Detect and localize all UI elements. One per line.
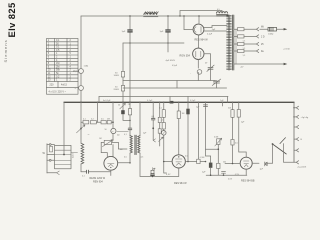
- svg-text:0,5: 0,5: [185, 156, 188, 158]
- svg-text:+4 150: +4 150: [283, 49, 291, 51]
- terminal arrow B1: [296, 115, 298, 118]
- electrolytic C10: [186, 109, 189, 115]
- wire x81 below bus: [80, 102, 82, 143]
- capacitor C9: [151, 118, 155, 120]
- resistor R17: [197, 159, 200, 163]
- antenna coil rungs: [55, 150, 72, 164]
- terminal arrow A4: [256, 49, 258, 52]
- V4 electrodes: [176, 159, 183, 165]
- IF transformer T2 left: [130, 136, 132, 154]
- junction x81: [80, 128, 82, 130]
- svg-text:1μF: 1μF: [160, 31, 164, 33]
- resistor R14: [162, 110, 165, 118]
- lamp La1: [79, 69, 84, 74]
- bus main: [64, 101, 294, 103]
- terminal arrow B0: [296, 106, 298, 109]
- parts table: [47, 39, 79, 95]
- meter M1: [111, 128, 116, 133]
- wire bottom row left: [81, 171, 86, 173]
- wire branch y149: [206, 148, 219, 150]
- wire branch x130: [129, 43, 131, 102]
- coil L3: [81, 143, 84, 164]
- C9 wire: [152, 120, 154, 140]
- svg-text:0,5M: 0,5M: [200, 157, 205, 159]
- antenna coil frame: [55, 145, 72, 168]
- svg-text:2M: 2M: [128, 104, 131, 106]
- switch dot: [272, 143, 274, 145]
- svg-text:1M: 1M: [182, 113, 185, 115]
- capacitor C11: [203, 105, 207, 107]
- tick x227: [227, 97, 229, 103]
- resistor R15: [162, 123, 165, 130]
- wire P2 down: [217, 145, 219, 164]
- resistor R6: [238, 42, 245, 45]
- capacitor C1: [128, 30, 132, 32]
- V3 dot: [110, 167, 111, 168]
- wire x184 drop: [183, 16, 185, 30]
- T2 core: [135, 135, 136, 154]
- wire bottom right: [206, 174, 247, 176]
- wire R8 left: [81, 121, 98, 123]
- svg-text:4,5V: 4,5V: [166, 174, 171, 176]
- switch lever: [273, 144, 287, 154]
- wire La3 down: [197, 72, 199, 80]
- wire V5 left: [225, 163, 240, 165]
- svg-text:0,1: 0,1: [152, 116, 155, 118]
- tap line 1: [234, 28, 238, 30]
- terminal arrow A5: [296, 161, 298, 164]
- V1 electrodes: [194, 27, 201, 36]
- wire row y80.5: [123, 80, 216, 82]
- terminal arrow B3: [296, 138, 298, 141]
- C8 wire: [152, 173, 154, 176]
- wire x113 to tube: [112, 140, 114, 157]
- wire x206 lower: [205, 108, 207, 149]
- wire T1 top: [228, 15, 230, 16]
- R12 wires: [129, 102, 131, 127]
- wire left drop: [80, 16, 82, 102]
- resistor R7: [238, 49, 245, 52]
- svg-text:4,5V: 4,5V: [228, 178, 233, 180]
- right terminal stub 0: [294, 107, 296, 109]
- wire V1 top: [198, 16, 200, 24]
- svg-text:0,1μF: 0,1μF: [207, 33, 213, 35]
- wire V2 right: [204, 54, 211, 67]
- terminal arrow B2: [296, 125, 298, 128]
- wire V4 right: [185, 161, 205, 163]
- V5 electrodes: [244, 161, 249, 167]
- capacitor C1 branch: [129, 16, 131, 29]
- svg-text:29,15: 29,15: [73, 71, 79, 73]
- resistor R24: [158, 129, 161, 133]
- antenna tap right: [71, 152, 78, 154]
- svg-text:~: ~: [75, 86, 77, 90]
- wire x178 drop: [178, 102, 180, 155]
- wire arrow out: [277, 28, 285, 30]
- wire x163 drop: [163, 102, 165, 161]
- resistor R16: [177, 111, 180, 119]
- P1 arrow: [102, 140, 113, 147]
- wire M1 down: [112, 134, 114, 140]
- R24 wire: [159, 133, 161, 146]
- extra labels cluster: [99, 63, 245, 164]
- capacitor C2 branch: [167, 16, 169, 29]
- resistor R12: [128, 109, 131, 115]
- terminal stub c: [47, 159, 55, 161]
- junction V3 wire: [129, 162, 131, 164]
- svg-text:Wt: Wt: [261, 25, 264, 28]
- svg-text:REN 904: REN 904: [93, 181, 103, 184]
- resistor R19: [217, 163, 220, 168]
- svg-text:0,5M: 0,5M: [214, 137, 219, 139]
- svg-text:Siemens: Siemens: [3, 39, 8, 62]
- potentiometer P2: [217, 139, 220, 145]
- wire x198 drop: [197, 102, 199, 159]
- terminal arrow A1: [256, 28, 258, 31]
- resistor R2: [121, 86, 124, 92]
- svg-text:0,5μF: 0,5μF: [172, 65, 178, 67]
- wire V1 right steps: [204, 26, 227, 32]
- C12 body: [209, 163, 213, 168]
- diode D1: [265, 162, 267, 166]
- wire tap4: [244, 50, 256, 52]
- wire x113 drop: [112, 102, 114, 128]
- junction x193: [187, 161, 189, 163]
- R23 wire: [159, 123, 161, 129]
- R13 wires: [153, 168, 156, 171]
- wire to M1 column: [117, 130, 128, 132]
- capacitor C3 trimmer: [207, 65, 214, 72]
- wire x222 stub: [222, 102, 224, 106]
- wire C1 to node: [129, 33, 131, 43]
- svg-text:~: ~: [88, 133, 90, 137]
- resistor R21: [237, 110, 240, 118]
- resistor R8: [83, 121, 89, 124]
- choke L2: [217, 12, 229, 16]
- wire R22 down: [232, 145, 234, 164]
- wire x159 drop: [159, 102, 161, 117]
- wire T2 right down: [139, 153, 141, 176]
- capacitor C8: [151, 174, 155, 175]
- tube V1 RES964: [193, 24, 204, 35]
- resistor R4: [268, 27, 277, 31]
- antenna terminal rail: [46, 144, 48, 173]
- resistor R9: [91, 121, 97, 124]
- wire x232 drop: [232, 102, 234, 139]
- wire upper rail left drop: [98, 97, 100, 103]
- C7 wire down: [123, 114, 130, 120]
- svg-text:100Ω: 100Ω: [114, 75, 120, 77]
- junction: [129, 42, 131, 44]
- wire V2 bottom: [197, 60, 199, 69]
- wire stub: [167, 43, 169, 52]
- wire C4 links: [216, 81, 218, 89]
- T2 right: [138, 136, 140, 154]
- svg-text:0,1μF: 0,1μF: [147, 100, 153, 102]
- wire C3 down: [210, 70, 212, 81]
- junction V4 left: [163, 161, 165, 163]
- terminal circle c: [49, 159, 51, 161]
- terminal stub a: [47, 144, 55, 146]
- wire tap2: [244, 35, 256, 37]
- capacitor C2: [166, 30, 170, 32]
- svg-text:RES 964 W: RES 964 W: [195, 39, 209, 42]
- junction V5 left: [232, 163, 234, 165]
- bus right drop: [293, 102, 295, 162]
- svg-text:+1g/+4g: +1g/+4g: [301, 117, 309, 119]
- wire x188 drop: [187, 97, 189, 162]
- wire node row y43: [123, 42, 184, 44]
- wire x97 drop: [97, 102, 99, 122]
- junction bottom2: [210, 174, 212, 176]
- labels under tap boxes: [240, 41, 245, 69]
- svg-text:0,5μF: 0,5μF: [190, 100, 196, 102]
- svg-text:RGN 354: RGN 354: [180, 55, 191, 58]
- arrow out A: [153, 139, 155, 142]
- potentiometer P1: [104, 140, 111, 144]
- wire tap3: [244, 43, 256, 45]
- tap line 4: [234, 50, 238, 52]
- terminal arrow B4: [296, 149, 298, 152]
- arrowhead bottom: [284, 63, 288, 65]
- wire switch riser: [272, 144, 274, 163]
- wire bottom terminal: [284, 161, 297, 163]
- svg-text:1,5: 1,5: [243, 55, 246, 57]
- terminal stub b: [47, 154, 55, 156]
- arrow diag x81: [77, 125, 86, 133]
- wire T1 bottom out: [234, 63, 284, 65]
- V2 electrodes: [196, 51, 201, 57]
- V4 dot: [178, 156, 179, 157]
- wire R10 links: [98, 121, 114, 123]
- svg-text:4μF 450V: 4μF 450V: [166, 60, 176, 62]
- resistor R13: [151, 170, 154, 173]
- wire P1 to tube: [101, 142, 107, 156]
- svg-text:50: 50: [105, 129, 107, 131]
- svg-text:0,1: 0,1: [82, 176, 85, 178]
- lamp La2: [79, 86, 84, 91]
- capacitor C14: [128, 128, 132, 130]
- terminal arrow A2: [256, 35, 258, 38]
- tube V5 output: [240, 157, 252, 169]
- arrowhead: [284, 28, 288, 30]
- tap line 3: [234, 43, 238, 45]
- resistor R5: [238, 35, 245, 38]
- svg-text:2 D: 2 D: [261, 37, 265, 39]
- wire D1 out: [265, 162, 273, 164]
- junction R11: [112, 121, 114, 123]
- wire V5 right: [252, 162, 259, 164]
- svg-text:0,5: 0,5: [217, 9, 220, 11]
- V3 electrodes: [108, 164, 114, 167]
- wire tap1: [244, 28, 256, 30]
- wire top rail: [81, 15, 229, 17]
- R19 wire: [217, 169, 219, 176]
- junction P2: [218, 148, 220, 150]
- wire C5 to tube: [89, 171, 111, 173]
- junction bottom: [152, 176, 154, 178]
- wire upper rail: [99, 96, 228, 98]
- tap line 2: [234, 35, 238, 37]
- tick x170: [169, 97, 171, 103]
- wire tap1 cont: [260, 28, 268, 30]
- wire bottom row mid: [140, 175, 179, 177]
- inductor L1: [144, 12, 159, 17]
- svg-text:50: 50: [118, 105, 120, 107]
- resistor R1: [121, 72, 124, 78]
- svg-text:4 x 0,5 / 220 V ~: 4 x 0,5 / 220 V ~: [49, 91, 67, 94]
- svg-text:RES 964 W: RES 964 W: [174, 182, 187, 185]
- tube V2 RGN354: [193, 48, 204, 59]
- svg-text:Elv 825: Elv 825: [6, 2, 17, 37]
- svg-text:1,5: 1,5: [243, 41, 246, 43]
- svg-text:100Ω: 100Ω: [268, 33, 274, 35]
- transformer T1 core: [232, 15, 233, 70]
- wire x283 lower: [283, 144, 285, 163]
- wire heater stub: [164, 162, 167, 174]
- wire left branch x123: [122, 43, 124, 102]
- wire C6: [122, 102, 124, 110]
- wire x238 drop: [239, 102, 246, 157]
- right terminal stub 3: [294, 138, 296, 140]
- wire P1 right: [112, 142, 127, 149]
- antenna bottom arrow: [57, 171, 60, 175]
- right terminal stub 4: [294, 149, 296, 151]
- svg-text:+1g (12V): +1g (12V): [297, 166, 306, 168]
- tap common vertical: [235, 29, 237, 64]
- wire top loop: [180, 11, 222, 17]
- wire row y88: [123, 87, 227, 89]
- junction C7: [129, 120, 131, 122]
- bus junctions: [80, 102, 239, 104]
- svg-text:4,5V: 4,5V: [235, 174, 240, 176]
- wire V3 right: [118, 162, 130, 164]
- junction dots top rail: [129, 15, 199, 16]
- svg-text:1,5: 1,5: [243, 48, 246, 50]
- electrolytic C12: [206, 149, 211, 162]
- terminal stub d: [47, 172, 57, 174]
- capacitor C13: [222, 172, 226, 176]
- wire T1 bottom join: [228, 64, 230, 70]
- wire V4 bottom: [178, 168, 180, 176]
- junction: [167, 42, 169, 44]
- wire V5 bottom: [245, 169, 247, 175]
- terminal arrow A3: [256, 42, 258, 45]
- svg-text:200Ω: 200Ω: [114, 89, 120, 91]
- wire V3 bottom: [110, 170, 112, 175]
- svg-text:50k: 50k: [228, 108, 231, 110]
- transformer T1 primary: [227, 15, 232, 70]
- wire bus left drop: [63, 102, 65, 154]
- wire T2 left down: [129, 153, 131, 163]
- C14 wire: [129, 130, 131, 137]
- svg-text:1,8Ω: 1,8Ω: [84, 66, 89, 68]
- svg-text:1μF: 1μF: [122, 31, 126, 33]
- labels above bus: [103, 100, 224, 102]
- wire V1 left: [184, 29, 193, 31]
- resistor R22: [231, 140, 234, 146]
- wire V4 left: [164, 161, 172, 163]
- resistor R10: [101, 121, 106, 124]
- capacitor C5 series: [87, 170, 89, 173]
- wire C2 down: [167, 33, 169, 43]
- terminal circle a: [49, 144, 51, 146]
- svg-text:4x0,1μF: 4x0,1μF: [103, 100, 111, 102]
- junction antenna: [63, 154, 65, 156]
- wire switch second blade: [280, 138, 286, 144]
- svg-text:0,1: 0,1: [124, 134, 127, 136]
- right terminal stub 2: [294, 126, 296, 128]
- wire L3 down: [80, 164, 82, 172]
- capacitor C4 trimmer: [212, 79, 221, 86]
- lamp La3: [197, 70, 202, 75]
- connector blob on bus: [170, 101, 174, 104]
- resistor R20: [231, 110, 234, 118]
- arrow diag B: [159, 137, 164, 141]
- junction C9: [152, 127, 154, 129]
- wire V1 to V2: [197, 35, 199, 48]
- trimmer C6 arrow: [120, 103, 126, 108]
- svg-text:1M: 1M: [99, 138, 102, 140]
- svg-text:~: ~: [112, 129, 114, 133]
- resistor R3: [238, 28, 245, 31]
- svg-text:2M: 2M: [107, 119, 110, 121]
- table cell entries: [48, 39, 72, 94]
- electrolytic C7: [121, 110, 125, 114]
- coil La small: [50, 146, 53, 152]
- right terminal stub 1: [294, 116, 296, 118]
- svg-text:4x0,5: 4x0,5: [61, 84, 68, 87]
- jack J1: [161, 131, 166, 136]
- tube V4 RES964b: [172, 155, 185, 168]
- resistor R23: [158, 117, 161, 122]
- svg-text:RES 964 BB: RES 964 BB: [241, 180, 255, 183]
- C12 wire: [210, 168, 212, 175]
- wire x206 drop: [205, 102, 207, 108]
- svg-text:220: 220: [50, 84, 55, 87]
- wire x153 drop: [152, 102, 154, 118]
- wire x140 top: [139, 102, 141, 136]
- resistor R11: [107, 121, 111, 124]
- tube V3 REN904: [104, 156, 118, 170]
- P2 arrow: [215, 138, 222, 146]
